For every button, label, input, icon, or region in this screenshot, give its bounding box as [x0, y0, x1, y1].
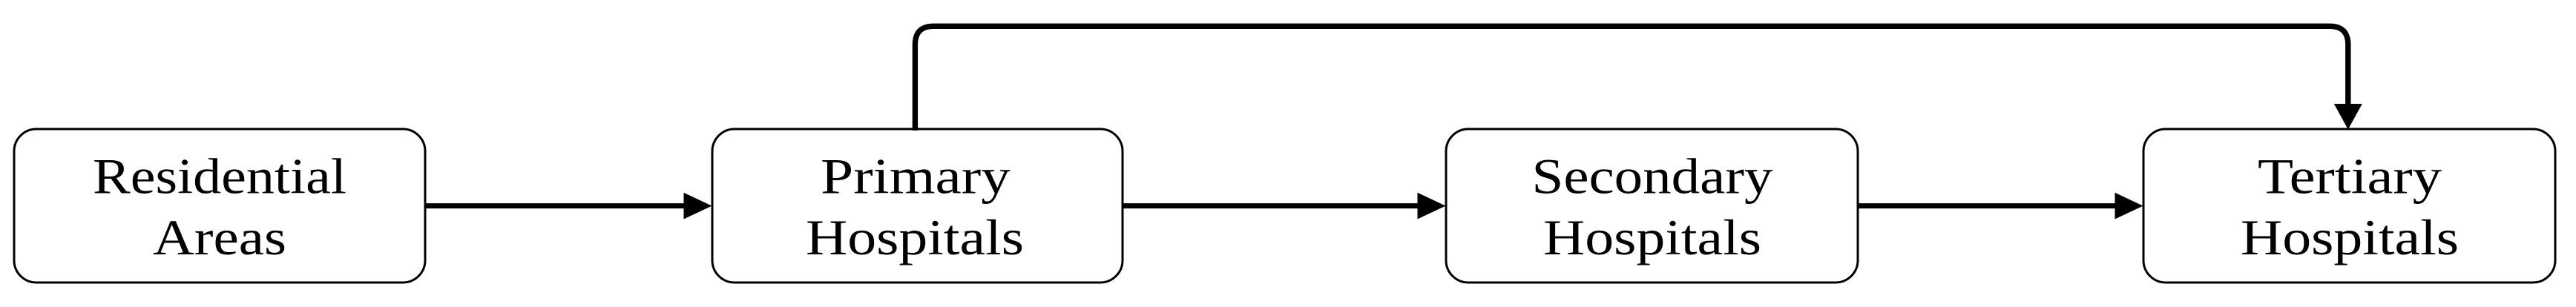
svg-text:Tertiary: Tertiary [2258, 148, 2442, 205]
svg-text:Hospitals: Hospitals [1543, 209, 1761, 265]
svg-text:Areas: Areas [153, 209, 286, 265]
arrow Primary Hospitals to Secondary Hospitals [1123, 193, 1446, 219]
svg-text:Hospitals: Hospitals [2241, 209, 2459, 265]
box Tertiary Hospitals [2143, 129, 2555, 283]
arrow Primary Hospitals bypass to Tertiary Hospitals (over the top) [915, 26, 2362, 131]
svg-text:Secondary: Secondary [1532, 148, 1773, 205]
box Secondary Hospitals [1446, 129, 1858, 283]
box Residential Areas [14, 129, 425, 283]
svg-text:Hospitals: Hospitals [806, 209, 1024, 265]
box Primary Hospitals [712, 129, 1123, 283]
arrow Residential Areas to Primary Hospitals [425, 193, 712, 219]
svg-text:Primary: Primary [821, 148, 1011, 205]
arrow Secondary Hospitals to Tertiary Hospitals [1858, 193, 2143, 219]
svg-text:Residential: Residential [93, 148, 346, 205]
